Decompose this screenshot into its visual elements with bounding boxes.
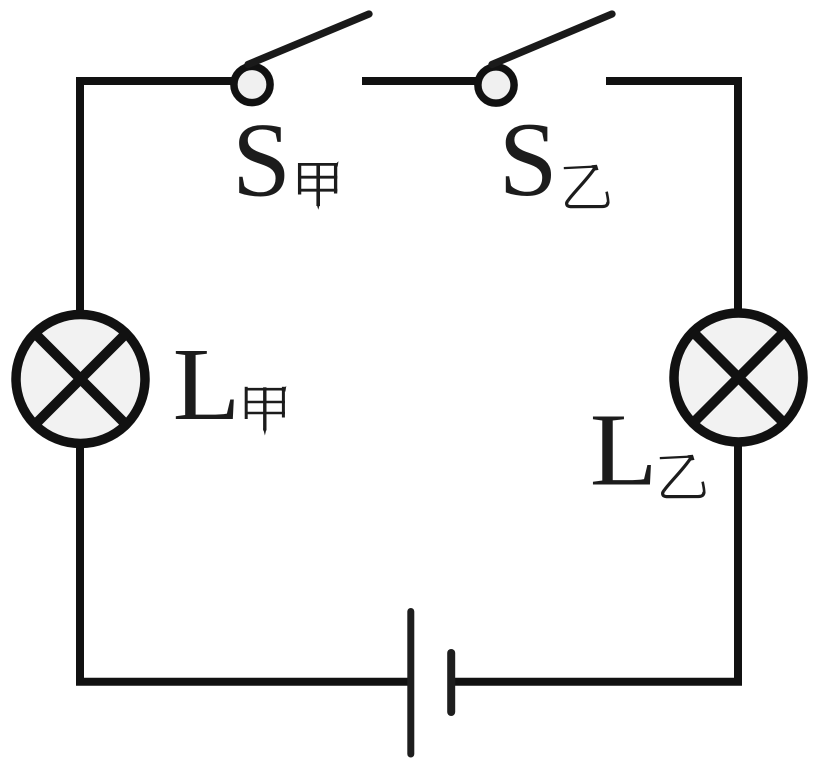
svg-text:S: S (232, 102, 291, 219)
wire: top middle segment between switches (362, 77, 496, 85)
lamp L2 (right) circle (674, 313, 803, 442)
label S1: subscript jia (drawn CJK) (298, 161, 339, 210)
wire: left side + top-left + bottom-left run (80, 81, 411, 682)
battery long plate (positive) (407, 612, 414, 755)
label L2: subscript yi (drawn CJK) (660, 455, 704, 497)
svg-text:S: S (499, 101, 558, 218)
label L1: subscript jia (drawn CJK) (245, 386, 286, 436)
lamp L1 cross X (35, 333, 127, 425)
svg-text:L: L (590, 393, 658, 508)
switch S1 lever (248, 14, 369, 65)
switch S2 pivot circle (478, 67, 514, 103)
battery short plate (negative) (447, 653, 455, 712)
label S2: subscript yi (drawn CJK) (564, 165, 608, 207)
switch S1 pivot circle (234, 66, 270, 102)
svg-text:L: L (173, 327, 241, 442)
lamp L1 (left) circle (16, 315, 145, 444)
switch S2 lever (492, 14, 612, 65)
wire: top-right + right side + bottom-right run (451, 81, 738, 682)
lamp L2 cross X (693, 332, 785, 424)
